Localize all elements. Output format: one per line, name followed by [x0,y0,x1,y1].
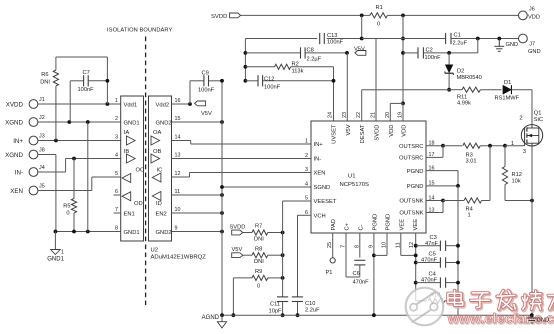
svg-text:DNI: DNI [40,80,50,86]
svg-text:XGND: XGND [5,152,23,159]
svg-text:2: 2 [305,153,308,159]
svg-text:GND1: GND1 [124,121,140,127]
svg-text:OUTSNK: OUTSNK [399,211,423,217]
wire XVDD top loop [56,56,108,58]
svg-text:470nF: 470nF [353,279,370,285]
capacitor C7 100nF [70,80,83,82]
wire R2 to U1 pin24 UVSET [333,67,335,121]
svg-text:4: 4 [115,153,118,159]
wire U2 pin9 GND2 to SGND rail [172,231,223,233]
svg-text:9: 9 [175,226,178,232]
svg-text:R9: R9 [255,269,262,275]
svg-text:GND2: GND2 [156,230,172,236]
svg-text:47nF: 47nF [425,241,438,247]
svg-text:EN1: EN1 [124,212,135,218]
resistor R6 DNI [55,57,57,70]
svg-text:MBR0540: MBR0540 [457,75,482,81]
wire U2 pin11 ID to SGND rail [172,194,223,196]
svg-text:EN2: EN2 [156,212,167,218]
wire U1 pin11 VEE join [400,233,402,255]
svg-text:22: 22 [356,112,362,118]
svg-text:VDD: VDD [402,125,408,137]
svg-text:470nF: 470nF [421,258,438,264]
wire VDD rail [402,15,404,103]
svg-text:C12: C12 [264,76,274,82]
diode D2 MBR0540 schottky [448,53,450,65]
svg-text:C2: C2 [426,47,433,53]
svg-text:J7: J7 [529,42,535,48]
wire U2 pin13 OB to U1 IN- [172,158,312,160]
svg-text:UVSET: UVSET [332,124,338,144]
svg-text:NCP5170S: NCP5170S [340,182,370,188]
svg-text:PGND: PGND [386,214,392,231]
svg-text:SiC: SiC [534,117,543,123]
resistor R2 113k [245,66,274,68]
capacitor C12 100nF [245,80,257,82]
watermark elecfans logo [406,288,444,326]
U2 channel OC buffer [122,174,131,183]
svg-text:IN-: IN- [314,157,322,163]
wire U1 pin13 OUTSNK tie [426,212,443,214]
svg-text:0: 0 [66,211,69,217]
junction C7 right [106,79,110,83]
svg-text:J8: J8 [39,147,45,153]
capacitor C10 2.2uF [292,296,303,298]
svg-text:2.2uF: 2.2uF [305,308,320,314]
svg-text:C7: C7 [83,70,90,76]
svg-text:C9: C9 [202,71,209,77]
junction on XVDD net [106,102,110,106]
resistor R5 0 [73,159,75,199]
capacitor C9 100nF [189,81,191,104]
capacitor C3 47nF [416,245,441,247]
svg-text:PGND: PGND [372,214,378,231]
wire U1 pin17 OUTSRC tie [426,156,443,158]
svg-text:IC: IC [157,168,163,174]
svg-text:DESAT: DESAT [360,124,366,143]
wire R4 up to gate node [489,146,491,201]
wire U1 pin22 DESAT [361,90,363,121]
svg-text:OUTSNK: OUTSNK [399,199,423,205]
wire SVDD drop to C13/C1 net [361,15,363,38]
resistor R8 DNI [243,254,252,256]
svg-text:16: 16 [175,98,181,104]
wire R1 to J6 [387,14,518,16]
resistor R3 3.01 [443,145,462,147]
op-amp U2 ADuM142E1WBRQZ isolator [121,96,144,241]
connector J4 IN- [29,168,38,177]
junction GND stem [497,37,501,41]
svg-text:V5V: V5V [346,124,352,135]
wire U1 pin6 VCH column [298,214,312,216]
svg-text:IA: IA [124,130,130,136]
U2 channel IA buffer [127,136,136,145]
junction C1/C2 right [476,37,480,41]
flag SVDD at R7 [232,230,243,235]
svg-text:VCH: VCH [314,214,326,220]
wire J2 to U2 pin2 [38,121,121,123]
svg-text:3: 3 [115,135,118,141]
svg-text:6: 6 [115,189,118,195]
capacitor C8 2.2uF [245,52,300,54]
wire Q1 source down [531,146,533,315]
svg-text:11: 11 [175,189,181,195]
svg-text:8: 8 [115,226,118,232]
svg-text:C11: C11 [270,302,280,308]
wire J1 to U2 pin1 [38,103,121,105]
wire U1 pin9 PGND column [373,233,375,315]
svg-text:PGND: PGND [407,169,424,175]
svg-text:3: 3 [523,149,526,155]
junction R6 bottom on IN+ net [54,139,58,143]
svg-text:C13: C13 [327,33,337,39]
wire gate node to Q1 [505,145,521,147]
svg-text:24: 24 [328,112,334,118]
svg-text:0: 0 [377,22,380,28]
svg-text:VEE: VEE [399,219,405,231]
wire U1 pin15 PGND [426,185,458,187]
svg-text:2: 2 [115,116,118,122]
svg-text:OUTSRC: OUTSRC [399,144,423,150]
svg-text:R5: R5 [63,204,70,210]
svg-text:PAD: PAD [331,219,337,231]
resistor R12 10k [504,146,506,167]
svg-text:C1: C1 [454,33,461,39]
svg-text:V5V: V5V [232,247,243,253]
svg-text:J2: J2 [39,115,45,121]
svg-text:1: 1 [305,139,308,145]
svg-text:V5V: V5V [354,46,365,52]
svg-text:4: 4 [305,182,308,188]
resistor R4 1 [443,200,464,202]
connector J7 GND [519,34,528,43]
junction R5 top on IN- net [72,157,76,161]
wire C2 to C1 join [449,52,478,54]
wire J5 to U2 pin5 [38,190,92,192]
svg-text:U1: U1 [348,174,356,180]
capacitor C13 100nF [245,38,317,40]
svg-text:OC: OC [136,168,145,174]
wire J4 to U2 pin4 [38,171,66,173]
flag V5V near U1 pin23 [355,51,366,56]
svg-text:2.2uF: 2.2uF [453,41,468,47]
svg-text:2: 2 [519,116,522,122]
svg-text:SVDD: SVDD [375,125,381,141]
svg-text:1: 1 [468,213,471,219]
resistor R11 4.99k [449,89,462,91]
svg-text:R6: R6 [41,72,48,78]
U2 channel OD buffer [122,192,131,201]
svg-text:C10: C10 [305,301,315,307]
svg-text:OB: OB [153,149,162,155]
wire U1 pin21 SVDD stub [375,39,377,122]
U2 channel ID buffer [152,192,161,201]
connector J2 XGND [29,118,38,127]
svg-text:PGND: PGND [407,184,424,190]
svg-text:R1: R1 [376,5,383,11]
svg-text:R7: R7 [255,224,262,230]
svg-text:J1: J1 [39,97,45,103]
wire SVDD to R1 [241,14,370,16]
svg-text:GND: GND [506,42,519,48]
wire R12 bottom to source rail [505,200,532,202]
svg-text:13: 13 [175,153,181,159]
svg-text:VEESET: VEESET [314,199,337,205]
svg-text:10pF: 10pF [269,308,282,314]
svg-text:Vdd1: Vdd1 [124,103,138,109]
svg-text:SVDD: SVDD [230,224,246,230]
wire AGND bottom rail [222,314,532,316]
svg-text:100nF: 100nF [198,88,215,94]
svg-text:R8: R8 [255,246,262,252]
svg-text:GND: GND [537,318,550,324]
junction R12 top [503,144,507,148]
svg-text:1: 1 [61,250,64,256]
svg-text:3.01: 3.01 [466,158,477,164]
isolation boundary dashed line [145,37,147,309]
junction D2 bottom on DESAT line [447,88,451,92]
svg-text:5: 5 [115,171,118,177]
wire U2 pin14 OA to U1 IN+ [172,140,191,142]
wire U2 pin12 IC to U1 XEN [172,176,190,178]
svg-text:2.2µF: 2.2µF [307,57,322,63]
svg-text:OUTSRC: OUTSRC [399,156,423,162]
svg-text:113k: 113k [292,69,304,75]
connector J1 XVDD [29,100,38,109]
svg-text:J3: J3 [39,133,45,139]
svg-text:OA: OA [153,130,162,136]
svg-text:RS1MWF: RS1MWF [495,95,520,101]
junction V5V tap [345,51,349,55]
watermark text [448,290,554,310]
wire U1 pin4 SGND to rail [222,186,311,188]
svg-text:C+: C+ [345,222,351,230]
U2 channel IC buffer [152,173,161,182]
svg-text:XEN: XEN [10,188,23,195]
svg-text:R12: R12 [512,172,522,178]
svg-text:15: 15 [175,116,181,122]
wire J3 to U2 pin3 [38,140,121,142]
svg-text:1: 1 [115,98,118,104]
test point P1 [332,233,334,258]
svg-text:ADuM142E1WBRQZ: ADuM142E1WBRQZ [151,255,207,261]
wire D1 to Q1 drain [512,89,533,91]
wire U1 pin16 PGND [426,170,458,172]
ground AGND [221,315,223,322]
svg-text:IN+: IN+ [13,138,23,145]
svg-text:V5V: V5V [201,111,212,117]
resistor R7 DNI [243,232,252,234]
junction C7 left [67,120,71,124]
U2 pin6 stub [114,194,121,196]
svg-text:C6: C6 [353,271,360,277]
connector J8 XGND [29,150,38,159]
svg-text:100nF: 100nF [327,40,344,46]
ground GND bottom right [530,313,534,317]
svg-text:AGND: AGND [202,315,220,321]
svg-text:DNI: DNI [254,236,264,242]
svg-text:D2: D2 [457,69,464,75]
svg-text:GND: GND [528,49,541,55]
svg-text:ISOLATION BOUNDARY: ISOLATION BOUNDARY [107,28,173,34]
U2 channel OB buffer [151,154,160,163]
U2 channel OA buffer [151,136,160,145]
junction D2 top [447,51,451,55]
svg-text:R11: R11 [457,95,467,101]
svg-text:Q1: Q1 [534,111,542,117]
wire U1 pin5 VEESET column [283,200,311,202]
svg-text:GND1: GND1 [47,257,64,263]
svg-text:100nF: 100nF [425,55,442,61]
wire U1 pin14 OUTSNK [426,200,443,202]
svg-text:XVDD: XVDD [6,101,24,108]
svg-text:100nF: 100nF [78,87,95,93]
junction R4 feedback [488,144,492,148]
ground GND1 [54,232,56,250]
svg-text:D1: D1 [504,80,511,86]
flag SVDD top [230,13,241,18]
junction C12 to UVSET [332,79,336,83]
svg-text:XGND: XGND [5,119,23,126]
svg-text:20: 20 [385,112,391,118]
wire U1 pin8 C- column [359,233,361,258]
wire U1 pin18 OUTSRC [426,145,443,147]
flag V5V at R8 [232,253,243,258]
svg-text:0: 0 [257,284,260,290]
wire VDD rail to U1 pin20 [390,102,403,104]
svg-text:VDD: VDD [389,125,395,137]
svg-text:7: 7 [115,207,118,213]
svg-text:4.99k: 4.99k [457,101,471,107]
svg-text:VEE: VEE [413,219,419,231]
svg-text:ID: ID [156,201,162,207]
wire U1 pin10 PGND join [386,233,388,255]
wire SGND rail [221,81,223,315]
capacitor C1 2.2uF [362,38,446,40]
wire GND1 rail (U2 pin8) [55,231,120,233]
connector J5 XEN [29,186,38,195]
svg-text:470nF: 470nF [421,277,438,283]
transistor Q1 SiC MOSFET [521,125,542,146]
wire PGND rail down [457,186,459,315]
svg-text:U2: U2 [151,247,159,253]
wire U2 pin16 Vdd2 to V5V [172,103,191,105]
capacitor C5 470nF [416,262,441,264]
capacitor C2 100nF [403,52,418,54]
ground GND at J7 [498,39,500,47]
resistor R1 0 [370,13,387,18]
svg-text:XEN: XEN [314,171,326,177]
resistor R10 0 [416,300,427,302]
svg-text:C8: C8 [307,48,314,54]
svg-text:P1: P1 [326,270,333,276]
wire U1 pin12 VEE rail [415,233,417,301]
U2 channel IB buffer [127,154,136,163]
svg-text:IN-: IN- [15,169,23,176]
wire U2 pin15 GND2 to SGND rail [172,121,223,123]
connector J3 IN+ [29,136,38,145]
svg-text:GND1: GND1 [124,230,140,236]
svg-text:3: 3 [305,167,308,173]
svg-text:Vdd2: Vdd2 [156,103,170,109]
wire R9 left drop to AGND rail [232,278,234,315]
svg-text:DNI: DNI [254,259,264,265]
svg-text:R2: R2 [292,62,299,68]
svg-text:C-: C- [358,224,364,230]
wire VDD rail to U1 pin19 [402,103,404,121]
svg-text:19: 19 [398,112,404,118]
wire V5V to U1 pin23 [346,52,348,54]
wire left net rail [244,39,246,81]
wire XGND vertical drop [87,122,89,232]
svg-text:12: 12 [175,171,181,177]
svg-text:J4: J4 [39,165,45,171]
svg-text:OD: OD [134,201,143,207]
resistor R9 0 [233,277,252,279]
connector J6 VDD [519,11,528,20]
svg-text:GND2: GND2 [156,121,172,127]
wire U2 pin10 EN2 to SGND rail [172,212,223,214]
svg-text:IN+: IN+ [314,142,324,148]
svg-text:10k: 10k [512,179,521,185]
capacitor C6 470nF [354,259,365,261]
svg-text:23: 23 [342,112,348,118]
wire J8 to GND1 rail [38,154,56,156]
svg-text:J5: J5 [39,183,45,189]
flag V5V at U2 pin16 [195,101,206,106]
junction XGND drop [86,120,90,124]
svg-text:100nF: 100nF [264,85,281,91]
svg-text:SGND: SGND [314,185,331,191]
capacitor C11 10pF [277,296,288,298]
wire U1 pin7 C+ column [345,233,347,277]
diode D1 RS1MWF [503,85,512,94]
svg-text:SVDD: SVDD [211,14,227,20]
op-amp U1 NCP5170S gate driver [311,121,426,233]
U2 pin7 stub [114,212,121,214]
svg-text:VDD: VDD [528,15,540,21]
svg-text:10: 10 [175,207,181,213]
svg-text:J6: J6 [529,7,535,13]
svg-text:14: 14 [175,135,181,141]
capacitor C4 470nF [416,282,441,284]
